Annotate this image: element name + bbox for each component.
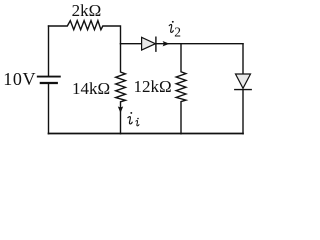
svg-text:2: 2 [174, 25, 181, 40]
